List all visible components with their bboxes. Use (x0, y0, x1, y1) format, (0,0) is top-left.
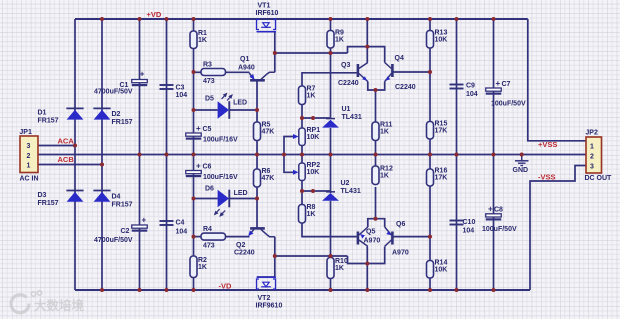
wire Q1 collector down to R5 (256, 81, 258, 122)
svg-text:R2: R2 (198, 257, 207, 264)
transistor Q4 C2240 (385, 55, 416, 91)
svg-text:Q3: Q3 (341, 62, 350, 69)
svg-text:4700uF/50V: 4700uF/50V (94, 89, 133, 96)
wire Q1 emitter riser / VT1 gate (257, 32, 275, 72)
svg-text:Q5: Q5 (366, 229, 375, 236)
svg-text:+: + (140, 70, 145, 79)
junction on U1 ref wire (311, 116, 315, 120)
junction GND line x284 (282, 153, 286, 157)
svg-text:+: + (142, 216, 147, 225)
svg-text:IRF9610: IRF9610 (256, 303, 283, 310)
svg-text:Q4: Q4 (395, 55, 404, 62)
svg-text:VT1: VT1 (258, 3, 271, 10)
potentiometer RP2 10K (293, 162, 320, 181)
connector JP1 (19, 129, 38, 183)
resistor R5 47K (254, 121, 275, 140)
junction bottom rail x139.5 (138, 288, 142, 292)
svg-text:C2240: C2240 (234, 250, 255, 257)
junction GND line x193.5 (192, 153, 196, 157)
wire R7 top to Q3 base (302, 73, 357, 86)
wire D6 to Q2 collector column (229, 198, 257, 200)
wire Q3/Q4 emitter join (368, 82, 385, 91)
resistor R8 (299, 204, 316, 223)
wire RP1 wiper from GND (284, 137, 295, 155)
svg-text:ACA: ACA (58, 137, 75, 146)
wire R9 bottom to U1 cathode (330, 48, 332, 118)
wire column C7 (493, 19, 495, 155)
wire column C10 (456, 155, 458, 291)
wire column D2/D4 (AC phase B) (101, 19, 103, 290)
capacitor C1 4700uF/50V (94, 70, 147, 96)
junction bottom rail x493.5 (492, 288, 496, 292)
svg-text:D1: D1 (38, 110, 47, 117)
svg-text:+VSS: +VSS (538, 140, 557, 149)
wire Q5 collector to -VD rail (366, 247, 368, 291)
svg-text:D6: D6 (205, 186, 214, 193)
potentiometer RP1 10K (293, 127, 320, 146)
svg-text:C5: C5 (203, 126, 212, 133)
svg-text:47K: 47K (262, 175, 275, 182)
svg-text:1K: 1K (307, 92, 316, 99)
wire node to U1 ref (302, 117, 331, 119)
svg-text:TL431: TL431 (342, 114, 362, 121)
mosfet VT2 IRF9610 (257, 279, 276, 289)
svg-text:2: 2 (27, 153, 31, 160)
svg-text:R7: R7 (307, 85, 316, 92)
capacitor C10 104 (450, 219, 476, 235)
svg-text:D3: D3 (38, 192, 47, 199)
wire emitter join up to R12 (375, 187, 377, 219)
svg-text:3: 3 (27, 143, 31, 150)
junction R7/RP1/U1 ref node (300, 116, 304, 120)
capacitor C4 104 (160, 220, 188, 236)
wire ACB from JP1 pin1 (38, 164, 102, 166)
resistor R16 17K (427, 168, 448, 187)
svg-text:+: + (496, 79, 501, 88)
diode D1 FR157 (38, 108, 84, 124)
capacitor C5 100uF/16V (186, 124, 238, 144)
svg-text:1K: 1K (335, 265, 344, 272)
junction bottom rail x330.5 (329, 288, 333, 292)
svg-text:DC OUT: DC OUT (585, 175, 613, 182)
wire bias node line y53 (275, 52, 348, 54)
junction GND line x456.5 (455, 153, 459, 157)
resistor R2 1K (190, 256, 207, 278)
junction top rail x430 (428, 17, 432, 21)
wire D5 anode lead (194, 109, 218, 111)
svg-text:R10: R10 (335, 258, 348, 265)
svg-text:GND: GND (513, 167, 529, 174)
svg-text:Q1: Q1 (240, 56, 249, 63)
junction VT1 gate node (273, 51, 277, 55)
wire GND symbol stub (521, 155, 523, 161)
shunt regulator U2 TL431 (322, 180, 361, 201)
wire ACA from JP1 pin3 (38, 145, 75, 147)
resistor R9 1K (327, 29, 344, 48)
wire R13 top lead (429, 19, 431, 31)
wire -VD bottom rail (75, 289, 530, 291)
capacitor C8 100uF/50V (482, 205, 517, 234)
junction Q3/Q4 emitters to R11 (374, 88, 378, 92)
wire GND center line JP1 pin2 to JP2 pin2 (38, 154, 586, 156)
svg-text:R3: R3 (203, 62, 212, 69)
svg-text:C8: C8 (494, 207, 503, 214)
svg-text:3: 3 (590, 164, 594, 171)
wire column C3/C4 (166, 19, 168, 290)
svg-text:大数培境: 大数培境 (34, 298, 85, 313)
mosfet VT1 gate bar (257, 31, 277, 33)
wire +VD top rail (75, 18, 528, 20)
wire bias node line y256 (275, 255, 348, 257)
junction D6/Q2 collector (255, 197, 259, 201)
wire R7 bottom to RP1 top (301, 105, 303, 129)
junction VT2 gate node (273, 254, 277, 258)
svg-text:D5: D5 (205, 96, 214, 103)
wire R4 to Q2 base (226, 236, 250, 238)
svg-text:104: 104 (463, 228, 475, 235)
junction bottom rail x193.5 (192, 288, 196, 292)
mosfet VT1 IRF610 (257, 20, 276, 30)
junction Q6 base/R16/R14 (428, 235, 432, 239)
capacitor C6 100uF/16V (186, 162, 238, 182)
resistor R10 1K (327, 258, 348, 279)
svg-text:R15: R15 (435, 120, 448, 127)
svg-text:U2: U2 (341, 180, 350, 187)
junction on U2 ref wire (311, 189, 315, 193)
junction top rail x139.5 (138, 17, 142, 21)
svg-text:R9: R9 (335, 29, 344, 36)
junction GND line x302 (300, 153, 304, 157)
svg-text:D4: D4 (112, 194, 121, 201)
junction ACA / D1-D3 column (73, 144, 77, 148)
svg-text:LED: LED (234, 190, 248, 197)
svg-text:104: 104 (466, 91, 478, 98)
wire R4 left lead (194, 236, 202, 238)
junction D5/Q1 collector (255, 108, 259, 112)
junction R1/R3 node (192, 70, 196, 74)
svg-text:RP2: RP2 (307, 162, 321, 169)
svg-text:473: 473 (203, 78, 215, 85)
svg-text:C2240: C2240 (395, 84, 416, 91)
junction bottom rail x430 (428, 288, 432, 292)
LED D6 (205, 186, 248, 217)
wire Q5/Q6 emitter join (368, 219, 385, 227)
wire Q4 base to R13/R15 node (394, 71, 431, 73)
transistor Q1 A940 (238, 56, 275, 80)
capacitor C2 4700uF/50V (94, 216, 147, 245)
svg-text:10K: 10K (435, 266, 448, 273)
junction GND line x330.5 (329, 153, 333, 157)
svg-text:100uF/50V: 100uF/50V (491, 101, 526, 108)
svg-text:JP2: JP2 (585, 130, 598, 137)
wire column C9 (456, 19, 458, 155)
svg-text:A970: A970 (364, 238, 381, 245)
wire GND line to R16 (429, 155, 431, 170)
wire GND to R6 top (256, 155, 258, 170)
wire R13 bottom to R15 (429, 48, 431, 122)
svg-text:R8: R8 (307, 204, 316, 211)
wire R9 top lead (330, 19, 332, 31)
wire R8 bottom to Q5 base (302, 223, 357, 237)
svg-text:VT2: VT2 (258, 295, 271, 302)
svg-text:1K: 1K (335, 36, 344, 43)
junction collector loop top (365, 45, 369, 49)
diode D2 FR157 (93, 108, 132, 126)
junction R2/R4 node (192, 235, 196, 239)
svg-text:+VD: +VD (147, 10, 162, 19)
wire RP2 top to GND (301, 155, 303, 164)
junction top rail x493.5 (492, 17, 496, 21)
junction bottom rail x166.5 (165, 288, 169, 292)
svg-text:1: 1 (27, 163, 31, 170)
resistor R4 473 (201, 226, 226, 250)
svg-text:+: + (196, 124, 201, 133)
junction GND line x493.5 (492, 153, 496, 157)
junction Q3 collector at top rail (365, 17, 369, 21)
wire R8 top to RP2 bottom (301, 181, 303, 205)
wire Q5/Q6 collector loop bottom (348, 247, 385, 264)
resistor R3 473 (201, 62, 226, 86)
svg-text:1K: 1K (380, 128, 389, 135)
wire RP2 wiper from GND (284, 155, 295, 173)
resistor R15 17K (427, 120, 448, 139)
diode D3 FR157 (38, 191, 84, 208)
svg-text:4700uF/50V: 4700uF/50V (94, 237, 133, 244)
junction C5/D5 node (192, 108, 196, 112)
wire U2 anode to y256 node (330, 201, 332, 256)
svg-text:10K: 10K (307, 134, 320, 141)
svg-text:+: + (196, 162, 201, 171)
ground symbol GND (513, 161, 529, 174)
resistor R14 10K (427, 259, 448, 278)
svg-text:1K: 1K (198, 37, 207, 44)
wire column C1/C2 (139, 19, 141, 290)
junction GND line x521.7 (520, 153, 524, 157)
junction bottom rail x102 (100, 288, 104, 292)
wire R10 bottom lead (330, 278, 332, 290)
svg-text:C10: C10 (463, 219, 476, 226)
svg-text:47K: 47K (262, 128, 275, 135)
resistor R1 1K (190, 30, 207, 49)
svg-text:R16: R16 (435, 168, 448, 175)
svg-text:1: 1 (590, 144, 594, 151)
wire node to U2 ref (302, 190, 331, 192)
wire R16 bottom to R14 (429, 186, 431, 261)
wire column C8 (493, 155, 495, 291)
transistor Q6 A970 (385, 221, 409, 257)
wire GND line to U2 cathode (330, 155, 332, 194)
svg-text:R12: R12 (380, 165, 393, 172)
svg-text:RP1: RP1 (307, 127, 321, 134)
svg-text:R13: R13 (435, 29, 448, 36)
wire R14 bottom lead (429, 278, 431, 290)
svg-text:AC IN: AC IN (20, 176, 39, 183)
wire RP1 bottom to GND (301, 146, 303, 155)
junction C6/D6 node (192, 197, 196, 201)
svg-text:IRF610: IRF610 (256, 10, 279, 17)
junction top rail x166.5 (165, 17, 169, 21)
junction GND line x257 (255, 153, 259, 157)
svg-text:1K: 1K (198, 264, 207, 271)
wire R3 to Q1 base (226, 71, 250, 73)
diode D4 FR157 (93, 191, 132, 209)
svg-text:-VD: -VD (219, 282, 233, 291)
svg-text:+: + (488, 205, 493, 214)
wire R10 top lead (330, 256, 332, 261)
svg-text:U1: U1 (342, 106, 351, 113)
junction GND line x375.5 (374, 153, 378, 157)
capacitor C7 100uF/50V (486, 79, 526, 108)
junction bottom rail x456.5 (455, 288, 459, 292)
svg-text:-VSS: -VSS (538, 173, 556, 182)
capacitor C3 104 (160, 85, 188, 100)
junction Q5/Q6 emitters to R12 (374, 217, 378, 221)
wire column R1/C5/C6/R2 (193, 19, 195, 290)
svg-text:A970: A970 (392, 250, 409, 257)
junction R8/RP2/U2 ref node (300, 189, 304, 193)
svg-text:FR157: FR157 (38, 118, 59, 125)
wire Q3/Q4 collector loop top (348, 47, 385, 63)
svg-text:100uF/16V: 100uF/16V (203, 174, 238, 181)
svg-text:FR157: FR157 (112, 202, 133, 209)
resistor R11 1K (372, 121, 393, 140)
svg-text:1K: 1K (307, 211, 316, 218)
junction ACB / D2-D4 column (100, 163, 104, 167)
svg-text:R5: R5 (262, 121, 271, 128)
svg-text:2: 2 (590, 154, 594, 161)
wire Q3 collector to +VSS rail (366, 19, 368, 63)
resistor R7 (299, 85, 316, 104)
junction top rail x456.5 (455, 17, 459, 21)
wire -VSS feed to JP2 pin3 (530, 166, 586, 291)
svg-text:A940: A940 (238, 65, 255, 72)
wire Q6 base to R16/R14 node (394, 236, 431, 238)
wire D5 cathode to Q1 collector column (229, 109, 257, 111)
svg-text:R6: R6 (262, 168, 271, 175)
resistor R6 47K (254, 168, 275, 187)
resistor R13 10K (427, 29, 448, 48)
svg-text:TL431: TL431 (341, 188, 361, 195)
wire emitter join down to R11 (375, 90, 377, 122)
watermark logo (11, 291, 42, 313)
junction GND line x166.5 (165, 153, 169, 157)
svg-text:10K: 10K (307, 169, 320, 176)
junction GND line x430 (428, 153, 432, 157)
junction top rail x193.5 (192, 17, 196, 21)
svg-text:1K: 1K (380, 172, 389, 179)
junction Q4 base/R13/R15 (428, 70, 432, 74)
resistor R12 1K (372, 165, 393, 184)
svg-text:C3: C3 (176, 85, 185, 92)
svg-text:C6: C6 (203, 164, 212, 171)
svg-text:100uF/16V: 100uF/16V (203, 137, 238, 144)
junction top rail x330.5 (329, 17, 333, 21)
capacitor C9 104 (450, 83, 478, 99)
transistor Q5 A970 (358, 227, 380, 246)
svg-text:C2: C2 (121, 228, 130, 235)
wire D6 lead left (194, 198, 218, 200)
wire column D1/D3 (AC phase A) (74, 19, 76, 290)
svg-text:100uF/50V: 100uF/50V (482, 226, 517, 233)
svg-text:R1: R1 (198, 30, 207, 37)
junction Q5 collector at bottom rail (365, 288, 369, 292)
svg-text:D2: D2 (112, 111, 121, 118)
svg-text:C9: C9 (466, 83, 475, 90)
svg-text:LED: LED (233, 100, 247, 107)
shunt regulator U1 TL431 (322, 106, 362, 128)
svg-text:473: 473 (203, 243, 215, 250)
junction R9/bias node (329, 51, 333, 55)
wire R11 bottom to GND line (375, 141, 377, 155)
svg-text:Q2: Q2 (236, 242, 245, 249)
svg-text:104: 104 (176, 229, 188, 236)
svg-text:FR157: FR157 (38, 200, 59, 207)
wire R6 bottom / Q2 collector (256, 187, 258, 228)
svg-text:R11: R11 (380, 121, 393, 128)
LED D5 (205, 93, 247, 119)
wire R3 left lead (194, 71, 202, 73)
transistor Q2 C2240 (234, 228, 275, 256)
junction R10/bias node (329, 254, 333, 258)
wire R5 bottom to GND line (256, 141, 258, 155)
svg-text:17K: 17K (435, 175, 448, 182)
wire U1 anode to GND line (330, 128, 332, 155)
svg-text:10K: 10K (435, 36, 448, 43)
wire Q2 emitter riser / VT2 gate (257, 237, 275, 277)
transistor Q3 C2240 (338, 62, 368, 87)
junction top rail x102 (100, 17, 104, 21)
svg-text:C2240: C2240 (338, 80, 359, 87)
junction collector loop bottom (365, 262, 369, 266)
svg-text:Q6: Q6 (396, 221, 405, 228)
svg-text:FR157: FR157 (112, 119, 133, 126)
mosfet VT2 gate bar (257, 276, 277, 278)
svg-text:104: 104 (176, 92, 188, 99)
svg-text:C4: C4 (176, 220, 185, 227)
svg-text:ACB: ACB (58, 155, 75, 164)
wire R15 bottom to GND line (429, 139, 431, 155)
connector JP2 (585, 130, 613, 183)
junction GND line x139.5 (138, 153, 142, 157)
svg-text:R4: R4 (203, 226, 212, 233)
svg-text:JP1: JP1 (19, 129, 32, 136)
svg-text:17K: 17K (435, 127, 448, 134)
wire +VSS feed to JP2 pin1 (528, 19, 586, 141)
wire R12 top to GND line (375, 155, 377, 167)
svg-text:C7: C7 (502, 81, 511, 88)
svg-text:R14: R14 (435, 259, 448, 266)
